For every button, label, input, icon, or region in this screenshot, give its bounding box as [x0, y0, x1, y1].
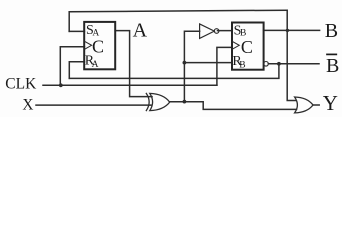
label R_A	[85, 54, 99, 70]
OR gate U5	[295, 97, 313, 113]
wire Bbar feedback line	[69, 64, 279, 79]
svg-text:A: A	[92, 60, 99, 70]
label S_A	[86, 23, 99, 38]
flip-flop U2 box	[232, 23, 264, 70]
svg-text:Y: Y	[323, 91, 338, 115]
wire S_A input stub	[69, 30, 84, 32]
svg-text:A: A	[133, 20, 148, 42]
junction R_B branch	[183, 61, 187, 65]
svg-text:B: B	[326, 55, 339, 77]
svg-text:C: C	[241, 37, 253, 57]
junction XOR output node	[183, 100, 187, 104]
wire B output line	[264, 29, 320, 31]
wire Bbar output line	[268, 63, 319, 65]
wire X input line	[36, 104, 151, 106]
svg-text:X: X	[22, 96, 33, 113]
svg-text:B: B	[325, 20, 338, 42]
junction Bbar branch	[277, 62, 281, 66]
wire inverter output to S_B	[218, 30, 233, 32]
wire C_A clock stub and riser	[60, 47, 84, 86]
wire OR output to Y	[313, 104, 319, 106]
flip-flop U2 clock triangle	[233, 42, 239, 49]
wire Q_A output to A node riser and XOR input	[115, 31, 152, 97]
flip-flop U1 clock triangle	[85, 42, 91, 49]
node Bbar label	[326, 54, 339, 77]
wire B riser to top and OR gate	[287, 10, 295, 100]
wire CLK riser to C_B	[217, 47, 232, 85]
flip-flop U1 box	[84, 22, 115, 69]
svg-text:CLK: CLK	[5, 76, 37, 93]
wire inverter riser from XOR output	[184, 31, 199, 101]
svg-text:B: B	[239, 60, 245, 70]
inverter U3	[200, 24, 219, 39]
label R_B	[232, 54, 245, 70]
wire XOR output with jog to OR input	[170, 102, 297, 110]
junction CLK / C_A	[59, 83, 63, 87]
junction B branch	[286, 29, 289, 32]
flip-flop U2 Qbar bubble	[264, 62, 269, 67]
wire CLK line	[43, 84, 217, 86]
wire R_B input stub	[184, 62, 232, 64]
XOR gate U4	[146, 93, 169, 110]
wire R_A input stub and riser	[69, 62, 84, 79]
label S_B	[234, 23, 247, 38]
wire top feedback B to S_A	[69, 10, 287, 31]
